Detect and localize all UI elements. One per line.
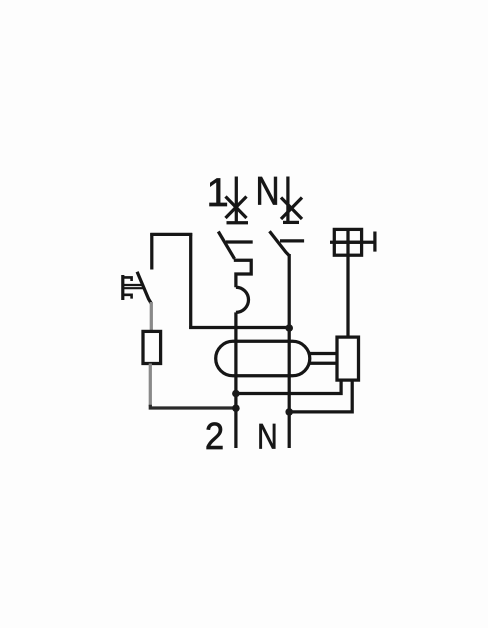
wire neutral vertical down to terminal N bbox=[288, 254, 291, 448]
magnetic release arc pole 1 bbox=[236, 287, 249, 312]
thermal release step pole 1 bbox=[234, 260, 251, 287]
wire bottom-left horizontal to phase bbox=[150, 405, 236, 408]
node junction solenoid-to-phase bbox=[232, 390, 240, 398]
wire vertical down at x=190.7 bbox=[189, 233, 192, 329]
relay crossbar end bar bbox=[373, 232, 376, 252]
node junction test-to-N bbox=[285, 324, 293, 332]
svg-text:N: N bbox=[257, 417, 278, 457]
svg-text:N: N bbox=[255, 169, 279, 214]
wire solenoid right pin bbox=[289, 380, 352, 412]
relay release cross-square symbol bbox=[334, 229, 361, 255]
wire phase vertical down to terminal 2 bbox=[234, 312, 237, 448]
terminal N bar bbox=[283, 221, 299, 224]
wire solenoid left pin bbox=[236, 380, 341, 393]
pole N latch dash bbox=[280, 239, 304, 242]
wire test horizontal to N pole bbox=[189, 326, 289, 329]
resistor R test bbox=[143, 331, 161, 363]
CT secondary link lower bbox=[309, 362, 337, 365]
wire top horizontal from stub to right bbox=[150, 233, 192, 236]
test switch blade bbox=[137, 272, 151, 304]
wire gray resistor down bbox=[149, 364, 152, 407]
test push-button SB actuator bbox=[122, 275, 144, 300]
svg-text:2: 2 bbox=[205, 415, 224, 458]
wire gray blade to resistor bbox=[150, 302, 153, 332]
node junction solenoid-to-N bbox=[285, 408, 293, 416]
wire relay stem down bbox=[346, 255, 349, 337]
relay crossbar horizontal bbox=[330, 241, 375, 244]
terminal N lead bbox=[286, 177, 289, 223]
svg-text:1: 1 bbox=[207, 171, 229, 215]
wire test-button stub vertical bbox=[150, 233, 153, 270]
current transformer toroid bbox=[216, 341, 310, 376]
breaker contact blade pole N bbox=[270, 231, 290, 255]
trip solenoid K bbox=[337, 337, 359, 380]
node junction resistor-to-phase bbox=[232, 404, 240, 412]
terminal 1 bar bbox=[227, 221, 249, 224]
breaker contact blade pole 1 bbox=[218, 232, 234, 259]
terminal 1 lead bbox=[235, 177, 238, 224]
CT secondary link upper bbox=[309, 352, 337, 355]
terminal 1 X symbol bbox=[226, 197, 247, 219]
terminal N X symbol bbox=[281, 198, 302, 220]
pole 1 latch dash bbox=[226, 240, 253, 243]
